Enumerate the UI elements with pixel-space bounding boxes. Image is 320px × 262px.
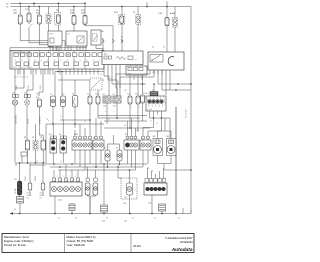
wire drop x104: [103, 164, 105, 205]
svg-text:M5: M5: [125, 197, 127, 199]
connector block C90b: [113, 96, 121, 103]
switch strip S4 cells: [142, 136, 145, 139]
svg-text:K5: K5: [113, 94, 115, 96]
title block frame: [2, 234, 194, 253]
wire below E1: [14, 105, 16, 163]
relay coil K36: [136, 15, 141, 25]
wire band pin bend a: [23, 69, 25, 88]
svg-text:E9: E9: [15, 179, 17, 181]
wire route from A20 pin3: [112, 83, 146, 85]
wire long rail D: [104, 127, 150, 129]
ground strap box: [17, 197, 24, 204]
wire below A30 a: [149, 115, 151, 119]
wire left rail 2: [30, 164, 46, 166]
fuse F32: [72, 15, 76, 24]
wire below F29: [19, 24, 21, 41]
svg-text:58 SW: 58 SW: [35, 176, 37, 181]
lamp L2: [28, 183, 32, 190]
wire stub B1 top: [57, 30, 59, 32]
svg-text:Year: 1999-00: Year: 1999-00: [67, 243, 85, 247]
wire drop F29: [19, 3, 21, 15]
dashed region boundary: [90, 78, 102, 90]
svg-text:8 6 4 1 9 2 7 3 11 5 12 10 14: 8 6 4 1 9 2 7 3 11 5 12 10 14 2: [13, 67, 32, 69]
svg-text:112 SW/GE: 112 SW/GE: [16, 114, 18, 124]
wire below M3: [157, 156, 159, 164]
central junction box band: [10, 51, 104, 70]
svg-text:12: 12: [60, 161, 62, 163]
svg-text:F42: F42: [95, 94, 98, 96]
wire below L2: [29, 190, 31, 196]
motor pill P1: [25, 140, 29, 150]
svg-text:F43: F43: [127, 94, 130, 96]
wire band-bottom rail 2: [58, 79, 104, 81]
wash pump dashed box: [121, 178, 137, 199]
wire route from A20 pin5: [119, 92, 121, 96]
module A20 (GEM): [102, 51, 143, 65]
wire long rail B: [98, 117, 140, 119]
wire below F42: [97, 104, 99, 118]
wire below F31: [28, 29, 30, 43]
wire route from A20 pin2: [108, 79, 117, 81]
junction dots bus 15: [28, 6, 30, 8]
svg-text:2 4 6: 2 4 6: [152, 72, 156, 74]
wire below coil A: [174, 27, 176, 52]
svg-text:31: 31: [54, 60, 56, 62]
fuse F31: [27, 13, 31, 22]
wire below H1: [107, 161, 109, 167]
wire bus 30: [11, 2, 87, 4]
fuse F29: [18, 15, 22, 24]
svg-text:K57: K57: [50, 34, 53, 36]
gauge B3: [72, 96, 78, 108]
wire below K3: [95, 45, 97, 49]
wire gnd bus arrow: [10, 212, 13, 215]
wire C15 to E2: [26, 98, 28, 100]
wire stub x176 join: [175, 107, 177, 214]
svg-text:31: 31: [75, 218, 77, 220]
svg-text:A BAT: A BAT: [170, 12, 176, 15]
wire below F34: [38, 24, 40, 45]
svg-text:M2: M2: [40, 137, 42, 139]
svg-text:C15: C15: [24, 92, 27, 94]
wires below S1: [74, 150, 76, 164]
wire drop F31: [28, 7, 30, 14]
switch strip S1 cells: [74, 136, 77, 139]
svg-text:C45: C45: [124, 221, 127, 223]
sub module A21: [126, 66, 147, 75]
wire below CB1: [54, 196, 56, 214]
wire below P2: [35, 150, 37, 163]
heater pill H2: [117, 150, 122, 161]
lamp L1 dark: [17, 181, 21, 195]
svg-text:2 6 4 8 1 3 5 9 7 11: 2 6 4 8 1 3 5 9 7 11 2 4: [14, 77, 28, 79]
band internal fuses: [14, 53, 18, 57]
svg-text:31 SW: 31 SW: [40, 85, 42, 90]
svg-text:C91: C91: [113, 106, 116, 108]
fuse F36: [120, 16, 124, 23]
wire above P2: [35, 124, 37, 141]
svg-text:R2: R2: [116, 148, 118, 150]
wire below F41: [89, 104, 91, 120]
wire below pills: [89, 196, 91, 214]
wire below L3: [42, 190, 44, 196]
svg-text:31: 31: [154, 218, 156, 220]
fuse F42: [96, 96, 100, 104]
wire stub at x147: [146, 2, 148, 6]
svg-text:31 SW: 31 SW: [28, 85, 30, 90]
svg-text:B3: B3: [72, 94, 74, 96]
wires into CB1: [53, 170, 55, 178]
wires above S1: [74, 130, 76, 136]
svg-text:56b SW: 56b SW: [27, 195, 33, 197]
wire drop lamp L2: [29, 163, 31, 183]
wire route RB5: [165, 70, 167, 95]
svg-text:C14: C14: [12, 92, 15, 94]
wire bus 15: [11, 6, 192, 8]
wire bottom rail 1: [46, 163, 147, 165]
pill CB1a cells: [86, 178, 89, 181]
wire below F36: [121, 23, 123, 51]
fuse F44: [136, 96, 140, 104]
svg-text:54: 54: [108, 119, 110, 121]
wire below F30: [166, 26, 168, 52]
svg-text:31 SW: 31 SW: [28, 119, 30, 124]
svg-text:E5: E5: [49, 134, 51, 136]
wire below F44: [137, 104, 139, 132]
svg-text:12: 12: [110, 78, 112, 80]
wire route from A20 pin4: [116, 87, 117, 89]
wire vertical x46: [45, 124, 47, 163]
fuse F33: [83, 15, 87, 24]
switch strip S2 cells: [95, 136, 98, 139]
gauge B2: [61, 96, 66, 107]
wire below M4: [170, 156, 172, 164]
motor M4 housing: [167, 139, 177, 156]
fuse F41: [88, 96, 92, 104]
motor M3 housing: [153, 139, 163, 156]
pins below K58: [67, 46, 69, 51]
svg-text:GE/SW: GE/SW: [40, 195, 45, 197]
svg-text:58 5W: 58 5W: [40, 193, 45, 195]
fuse F14: [57, 15, 61, 23]
wire x118 into pump box: [118, 177, 121, 179]
svg-text:31: 31: [14, 209, 16, 211]
svg-text:31: 31: [55, 179, 57, 181]
right box RB (ignition switch): [148, 52, 184, 70]
svg-text:F41: F41: [87, 94, 90, 96]
wash pump contact: [127, 187, 132, 192]
wash pump pill: [127, 183, 133, 195]
pill CB1b cells: [94, 178, 97, 181]
svg-text:31: 31: [73, 179, 75, 181]
svg-text:31: 31: [58, 218, 60, 220]
wire stub left rail: [15, 163, 17, 166]
svg-text:31: 31: [34, 60, 36, 62]
svg-text:31: 31: [61, 179, 63, 181]
svg-text:56 GE/RT: 56 GE/RT: [40, 117, 42, 124]
svg-text:C90: C90: [103, 106, 106, 108]
wire route RB2: [153, 70, 155, 77]
CB2 label cells: [145, 179, 149, 183]
wire common rail: [10, 47, 86, 49]
wire below K20: [48, 24, 50, 47]
wire right vertical 176: [175, 107, 177, 214]
junctions ground bus: [19, 213, 21, 215]
svg-text:31: 31: [80, 60, 82, 62]
fuse F43: [128, 96, 132, 104]
ground bus: [10, 213, 183, 215]
wire band pin bend b: [32, 69, 34, 90]
motor M3 connector: [155, 140, 160, 144]
svg-text:c1: c1: [135, 59, 137, 61]
wire into pump: [129, 170, 131, 183]
wire bottom rail 2: [50, 166, 143, 168]
wire drop F33: [84, 3, 86, 15]
band feed-through wires: [19, 51, 21, 70]
svg-text:31: 31: [15, 60, 17, 62]
ground stack x162: [159, 204, 166, 211]
switch S-contact below F31: [28, 24, 33, 29]
wire above SW1: [52, 124, 54, 136]
wire below F40: [38, 107, 40, 135]
svg-text:58L: 58L: [124, 125, 127, 127]
svg-text:31: 31: [178, 218, 180, 220]
wire stub above bus at F30: [166, 1, 168, 6]
wire below F43: [129, 104, 131, 128]
wire below A30 b: [153, 115, 155, 128]
svg-text:15: 15: [68, 34, 70, 36]
CB1 label cells: [52, 178, 56, 181]
wire drop F30: [166, 7, 168, 18]
svg-text:56: 56: [156, 123, 158, 125]
svg-text:31: 31: [73, 60, 75, 62]
connector pair C15: [25, 95, 28, 98]
svg-text:R1: R1: [104, 148, 106, 150]
switch strip S2: [93, 140, 104, 150]
svg-text:V6.410: V6.410: [133, 245, 142, 248]
svg-text:K4: K4: [103, 94, 105, 96]
wires above S3: [127, 121, 129, 136]
pins below module A20: [103, 65, 105, 77]
svg-text:C11: C11: [27, 198, 30, 200]
svg-text:31: 31: [79, 179, 81, 181]
switch strip S1: [72, 140, 92, 150]
pins below sub module: [129, 75, 131, 96]
dark relay block: [150, 92, 158, 97]
svg-text:31: 31: [150, 121, 152, 123]
svg-text:F40: F40: [36, 94, 39, 96]
lamp E2 dashed: [24, 100, 29, 105]
wire drop F14: [57, 3, 59, 12]
wire drop x118: [117, 167, 119, 178]
connector block CB1: [50, 182, 82, 196]
wire route L3: [39, 44, 57, 46]
svg-text:56: 56: [36, 161, 38, 163]
wire mid vertical 170: [169, 118, 171, 140]
pill CB1a: [85, 183, 90, 195]
fuse F45: [141, 95, 145, 103]
svg-text:31: 31: [67, 179, 69, 181]
lamp L3: [41, 183, 45, 190]
switch stack SW1: [50, 139, 57, 153]
wire below F33 bending right: [84, 24, 86, 26]
wire below SW1: [52, 153, 54, 163]
svg-text:E7: E7: [125, 134, 127, 136]
svg-text:E163: E163: [74, 134, 78, 136]
wire drop F32: [73, 7, 75, 16]
wire long rail C: [104, 120, 147, 122]
svg-text:A20: A20: [104, 53, 107, 56]
connector pair C14: [13, 95, 16, 98]
connector box left: [21, 152, 27, 156]
title divider 1: [64, 234, 66, 253]
wire left rail: [16, 162, 46, 164]
wire above H1: [107, 144, 109, 150]
svg-text:50: 50: [152, 47, 154, 49]
fuse F40: [37, 99, 41, 107]
wire below pump: [129, 195, 131, 214]
motor M3: [154, 146, 162, 154]
wire C14 to E1: [14, 98, 16, 100]
svg-text:31: 31: [47, 60, 49, 62]
fuse F34: [37, 15, 41, 24]
svg-text:31: 31: [60, 116, 62, 118]
wire below A30 c: [161, 115, 163, 132]
fuse F14 dashed housing: [55, 12, 61, 25]
heater pill H1: [105, 150, 110, 161]
wire route RB1: [116, 73, 150, 75]
svg-text:31: 31: [86, 60, 88, 62]
wire below L1: [19, 195, 21, 197]
wire below F32: [73, 24, 75, 31]
svg-text:© Autodata Limited 2007: © Autodata Limited 2007: [165, 237, 193, 240]
svg-text:112 SW: 112 SW: [15, 188, 17, 194]
svg-text:E6: E6: [59, 134, 61, 136]
wires below S4: [142, 150, 144, 167]
svg-text:31: 31: [93, 60, 95, 62]
svg-text:C9: C9: [98, 94, 100, 96]
svg-text:31: 31: [99, 60, 101, 62]
wire long rail B2: [98, 115, 147, 117]
svg-text:C30: C30: [124, 90, 127, 92]
wire drop K20: [48, 7, 50, 15]
svg-text:31 SW: 31 SW: [16, 85, 18, 90]
wire below B2: [62, 107, 64, 121]
wires into sub module: [129, 65, 131, 67]
wire route L1: [20, 40, 65, 42]
svg-text:F44: F44: [135, 94, 138, 96]
svg-text:B2: B2: [62, 94, 64, 96]
wire long rail A: [46, 123, 104, 125]
wire band pin bend c: [42, 69, 44, 92]
wire below K36: [137, 24, 139, 51]
lamp E1: [12, 100, 17, 105]
wire long rail E: [60, 119, 90, 121]
svg-text:31 2.5 SW: 31 2.5 SW: [186, 109, 188, 118]
svg-text:30 87 85 86 30 87a 85 30 87: 30 87 85 86 30 87a 85 30 87: [13, 51, 31, 53]
relay K3: [91, 30, 101, 45]
svg-text:03/12/2004: 03/12/2004: [180, 241, 193, 244]
pins below band: [17, 69, 19, 75]
wire jumper 30-15: [33, 3, 35, 6]
svg-text:C48: C48: [123, 203, 126, 205]
pins below ignition switch: [149, 70, 151, 74]
relay coil A: [173, 18, 178, 28]
svg-text:31: 31: [60, 60, 62, 62]
wire drop F34: [38, 7, 40, 16]
svg-text:Tuned for: R-Cat: Tuned for: R-Cat: [4, 243, 26, 247]
svg-text:C12: C12: [40, 198, 43, 200]
svg-text:56 GE: 56 GE: [25, 176, 27, 181]
wire drop F36: [121, 7, 123, 16]
svg-text:M4: M4: [167, 136, 169, 138]
relay coil K20: [46, 14, 51, 24]
wire drop K36: [137, 7, 139, 15]
svg-text:31: 31: [106, 218, 108, 220]
title divider 2: [130, 234, 132, 253]
switch stack SW2 cells: [61, 136, 64, 139]
ground plate x104: [101, 205, 108, 212]
wire arrow mark: [46, 118, 49, 121]
wire route L2: [29, 42, 61, 44]
wire stub x90: [89, 196, 91, 214]
wire route L4: [49, 46, 54, 48]
wire above pills: [87, 167, 89, 178]
crosshatched module A30: [146, 96, 166, 111]
wire above M3: [157, 131, 159, 139]
svg-text:Autodata: Autodata: [171, 247, 193, 253]
svg-text:M3: M3: [153, 136, 155, 138]
wire below F45: [142, 103, 144, 121]
switch strip S3 cells: [126, 136, 129, 139]
wire route from A20 pin1: [104, 75, 109, 77]
wires above CB2: [147, 168, 149, 179]
wire bottom rail 3: [58, 169, 136, 171]
svg-text:31: 31: [21, 60, 23, 62]
motor pill P3: [41, 140, 45, 150]
wire below B3: [74, 107, 76, 128]
svg-text:C101: C101: [148, 203, 152, 205]
svg-text:31: 31: [41, 60, 43, 62]
pins below K57: [49, 46, 51, 51]
svg-text:C44: C44: [102, 221, 105, 223]
wire right bus vertical: [190, 7, 192, 214]
wire below SW2: [62, 153, 64, 163]
connector block C90a: [103, 96, 111, 103]
svg-text:C102: C102: [58, 200, 62, 202]
fuse F36 housing: [119, 15, 125, 25]
wire below P1: [27, 150, 29, 163]
svg-text:31: 31: [67, 60, 69, 62]
wire into dark block: [153, 84, 155, 92]
svg-text:F40: F40: [36, 97, 39, 99]
switch stack SW1 cells: [51, 136, 54, 139]
wire drop coil A: [174, 7, 176, 18]
svg-text:B1: B1: [50, 94, 52, 96]
relay module K57: [48, 31, 62, 46]
wire pins into module top: [102, 38, 104, 51]
svg-text:31: 31: [28, 60, 30, 62]
wire right bus join: [183, 213, 191, 215]
wire above P3: [39, 134, 43, 136]
connector chevrons above A20: [102, 39, 104, 43]
switch strip S3: [124, 140, 139, 150]
wire below CB2: [151, 195, 153, 214]
wire below C90a: [106, 103, 108, 124]
wire band pin to lamp1: [14, 69, 16, 96]
wire drop lamp L1: [19, 163, 21, 181]
relay module K58: [66, 31, 87, 46]
